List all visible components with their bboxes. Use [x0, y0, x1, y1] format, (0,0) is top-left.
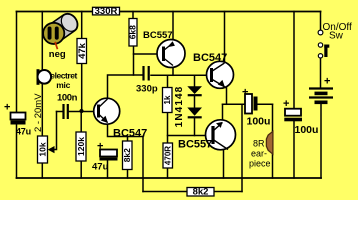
capacitor 100u output [242, 87, 270, 128]
node junction dot base of T1b [79, 109, 83, 113]
svg-text:+: + [283, 98, 289, 110]
resistor 1k [163, 88, 173, 113]
capacitor 330p [136, 66, 158, 95]
wire T1 base [134, 53, 162, 55]
svg-text:120k: 120k [76, 137, 86, 156]
battery [309, 76, 333, 103]
svg-text:Sw: Sw [329, 31, 344, 42]
wire earpiece column [272, 104, 274, 178]
wire switch to battery [320, 12, 322, 88]
svg-text:piece: piece [249, 159, 271, 169]
wire diode mid stub [194, 96, 196, 107]
svg-text:+: + [242, 87, 248, 99]
resistor 8k2 vertical [122, 141, 132, 170]
svg-text:10k: 10k [37, 142, 47, 156]
svg-text:BC547: BC547 [193, 52, 227, 64]
svg-text:330R: 330R [95, 6, 118, 17]
wire diode bottom stub [194, 118, 196, 135]
wire top rail [17, 11, 321, 13]
capacitor 100n [57, 93, 78, 120]
wire 330p right to T2 base [151, 74, 211, 76]
wire T2 collector up [224, 12, 226, 63]
wire 120k stubs [80, 111, 82, 178]
wire 47u2 bottom stub [107, 161, 109, 179]
wire bottom rail [17, 177, 322, 179]
switch On/Off [318, 22, 352, 58]
resistor 6k8 [128, 19, 138, 47]
wire mic column mid [41, 83, 43, 136]
resistor 47k [77, 39, 88, 64]
svg-text:ear-: ear- [251, 149, 267, 159]
svg-text:8R: 8R [253, 139, 265, 149]
svg-text:BC547: BC547 [113, 128, 147, 140]
svg-text:2 - 20mV: 2 - 20mV [33, 93, 44, 132]
svg-text:47u: 47u [92, 162, 109, 173]
svg-text:neg: neg [49, 49, 66, 60]
svg-text:330p: 330p [136, 84, 158, 95]
transistor Q4 BC547 input [94, 98, 148, 139]
svg-text:+: + [97, 141, 103, 153]
wire diode top stub [194, 75, 196, 86]
wire 470R stubs [167, 136, 169, 179]
resistor 8k2 feedback [187, 187, 214, 198]
svg-text:6k8: 6k8 [128, 25, 138, 39]
svg-text:1N4148: 1N4148 [174, 86, 185, 128]
wire T3 collector down [223, 150, 225, 178]
wire feedback right vertical [241, 104, 243, 191]
svg-text:47k: 47k [77, 42, 88, 59]
wire feedback bottom right [214, 191, 242, 193]
electret mic symbol [38, 69, 78, 90]
wire 47k column [81, 12, 83, 112]
diode D2 1N4148 [174, 86, 202, 128]
capacitor 47u emitter [92, 141, 118, 173]
wire feedback left vertical [142, 137, 144, 192]
wire T2 emitter down [226, 88, 228, 104]
resistor 120k [76, 132, 86, 161]
wire left rail upper [16, 12, 18, 113]
neg pointer [55, 42, 58, 49]
potentiometer 10k [37, 136, 54, 163]
transistor Q1 BC557 driver [143, 30, 185, 67]
wire T1b collector up [108, 75, 143, 98]
svg-text:electret: electret [50, 70, 77, 80]
svg-text:100u: 100u [295, 124, 319, 136]
wire 100uR column [293, 12, 295, 179]
svg-text:47u: 47u [16, 127, 31, 137]
svg-text:BC557: BC557 [178, 139, 212, 151]
svg-text:+: + [4, 102, 10, 114]
svg-text:8k2: 8k2 [122, 148, 132, 162]
pot wiper arrow [48, 146, 55, 153]
svg-text:1k: 1k [163, 95, 172, 104]
wire 1k bottom to T3 base [168, 113, 212, 136]
wire 100n left [57, 111, 63, 113]
wire T1 emitter stub [172, 12, 174, 41]
wire left rail lower [16, 125, 18, 179]
wire wiper column [54, 112, 57, 150]
diode D1 1N4148 [187, 86, 202, 95]
wire battery to bottom rail [320, 105, 322, 179]
svg-text:BC557: BC557 [143, 30, 173, 41]
wire T3 emitter up [222, 104, 224, 120]
wire T1b emitter net [108, 124, 144, 137]
wire pot bottom [41, 163, 43, 178]
transistor Q3 BC557 output [178, 120, 236, 151]
wire 6k8 bottom to 330p [133, 46, 135, 75]
svg-text:mic: mic [56, 80, 70, 90]
resistor 330R [93, 6, 120, 17]
resistor 470R [163, 143, 173, 168]
capacitor 100u right [283, 98, 318, 136]
svg-text:8k2: 8k2 [193, 187, 209, 198]
wire 1k top stub [167, 75, 169, 87]
svg-text:100n: 100n [57, 93, 78, 104]
wire output node [223, 103, 246, 105]
wire 8k2v stubs [127, 137, 129, 179]
svg-text:100u: 100u [247, 116, 271, 128]
wire 100n right to base [69, 111, 98, 113]
wire 100u out right [258, 103, 273, 105]
svg-text:+: + [324, 76, 330, 88]
svg-text:470R: 470R [163, 146, 172, 165]
mic icon cylinder [43, 10, 81, 60]
earpiece 8R [249, 131, 273, 168]
wire feedback bottom left [143, 191, 187, 193]
wire T1 collector stub [172, 68, 174, 76]
capacitor 47u supply [4, 102, 31, 137]
wire mic column top [41, 12, 43, 72]
transistor Q2 BC547 [193, 52, 234, 88]
wire 6k8 top stub [132, 12, 134, 19]
